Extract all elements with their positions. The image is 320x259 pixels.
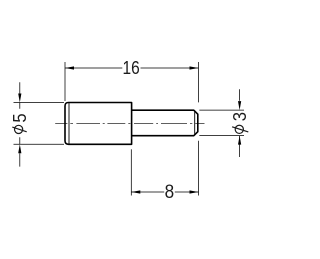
dimension Ø5: diameter symbol <box>12 125 26 133</box>
body chamfer line <box>68 103 70 144</box>
dimension 8: dimension line <box>131 191 198 193</box>
svg-text:16: 16 <box>123 58 140 79</box>
svg-text:5: 5 <box>9 113 30 122</box>
body outline (Ø5 cylinder) <box>65 103 132 145</box>
dimension Ø3: arrowheads <box>238 101 241 110</box>
dimension Ø5: arrowheads <box>18 94 21 103</box>
svg-text:3: 3 <box>229 112 250 121</box>
center line <box>55 123 204 125</box>
dimension 16: arrowheads <box>65 66 74 69</box>
svg-text:8: 8 <box>165 180 175 202</box>
dimension 16: dimension line <box>65 67 199 69</box>
dimension Ø3: extension lines <box>199 110 244 136</box>
dimension 8: extension lines <box>131 141 198 196</box>
dimension 8: arrowheads <box>131 190 140 193</box>
dimension Ø3: diameter symbol <box>232 125 248 133</box>
pin chamfer line <box>194 110 196 135</box>
dimension Ø5: extension lines <box>14 103 65 145</box>
dimension 16: extension lines <box>65 62 199 102</box>
dimension Ø5: dimension lines with outside arrows <box>19 82 21 166</box>
pin outline (Ø3) <box>132 110 198 136</box>
dimension Ø3: dimension lines with outside arrows <box>239 89 241 157</box>
